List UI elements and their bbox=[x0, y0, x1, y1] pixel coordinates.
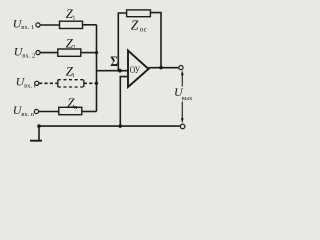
label Zn bbox=[67, 95, 78, 111]
wire (dashed) bbox=[39, 82, 58, 84]
output wire bbox=[149, 67, 179, 69]
ground stub wire bbox=[38, 126, 40, 140]
output terminal (bottom) bbox=[180, 124, 185, 129]
label Uвх.1 bbox=[13, 17, 35, 31]
label Z2 bbox=[66, 35, 76, 51]
label Zi bbox=[66, 63, 75, 79]
summing bus wire bbox=[96, 25, 98, 112]
paper background bbox=[0, 0, 200, 150]
impedance Z1 bbox=[60, 21, 83, 28]
arrowhead up (to top output terminal) bbox=[181, 70, 184, 75]
svg-text:2: 2 bbox=[72, 44, 75, 51]
svg-text:вых: вых bbox=[182, 95, 194, 102]
label Uвх.2 bbox=[14, 44, 36, 59]
output terminal (top) bbox=[179, 66, 183, 70]
junction dot row i/bus bbox=[95, 82, 98, 85]
wire bbox=[81, 52, 97, 54]
common rail wire bbox=[39, 125, 180, 127]
junction dot feedback/inverting input bbox=[118, 69, 122, 73]
non-inverting input wire bbox=[120, 77, 128, 127]
impedance Zi (dashed box) bbox=[58, 80, 84, 87]
junction dot ground/rail bbox=[37, 124, 41, 128]
label Uвых bbox=[174, 85, 193, 102]
wire to inverting input (node Σ) bbox=[97, 70, 129, 72]
impedance Zn bbox=[59, 107, 82, 114]
wire bbox=[40, 52, 58, 54]
svg-text:вх. 1: вх. 1 bbox=[21, 24, 34, 31]
impedance Z2 bbox=[58, 49, 81, 56]
svg-text:Σ: Σ bbox=[110, 53, 118, 70]
wire bbox=[40, 24, 59, 26]
label Zос bbox=[131, 17, 147, 33]
Uвых dimension arrow upper bbox=[181, 74, 183, 87]
ground bar bbox=[30, 140, 42, 142]
input terminal Uвх.1 bbox=[36, 23, 40, 27]
wire bbox=[82, 111, 97, 113]
input terminal Uвх.n bbox=[34, 109, 38, 113]
junction dot feedback/output bbox=[159, 66, 163, 70]
wire (dashed) bbox=[84, 82, 97, 84]
input terminal Uвх.2 bbox=[36, 51, 40, 55]
wire bbox=[39, 111, 59, 113]
wire bbox=[83, 24, 97, 26]
svg-text:вх. i: вх. i bbox=[24, 82, 36, 89]
Uвых dimension arrow lower bbox=[181, 102, 183, 120]
op-amp U1 triangle bbox=[128, 51, 149, 88]
feedback wire right vertical bbox=[150, 13, 161, 68]
feedback impedance Zос bbox=[127, 10, 151, 17]
svg-text:ос: ос bbox=[140, 25, 147, 33]
junction dot non-inverting/rail bbox=[119, 124, 123, 128]
svg-text:вх. 2: вх. 2 bbox=[22, 52, 35, 59]
label Uвх.i bbox=[16, 75, 36, 90]
svg-text:вх. n: вх. n bbox=[21, 111, 35, 118]
svg-text:1: 1 bbox=[72, 15, 75, 22]
feedback wire left vertical bbox=[118, 13, 126, 71]
arrowhead down (to bottom output terminal) bbox=[181, 118, 184, 123]
input terminal Uвх.i bbox=[35, 81, 39, 85]
svg-text:i: i bbox=[73, 72, 75, 79]
svg-text:ОУ: ОУ bbox=[130, 66, 141, 76]
label Z1 bbox=[66, 6, 76, 22]
label Uвх.n bbox=[13, 103, 35, 118]
junction dot row2/bus bbox=[95, 51, 98, 54]
svg-text:Z: Z bbox=[131, 17, 139, 32]
